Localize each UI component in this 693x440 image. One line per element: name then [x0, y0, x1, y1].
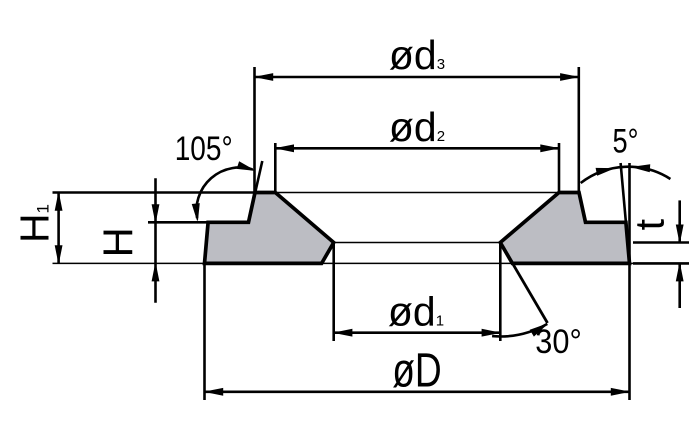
svg-text:øD: øD [392, 345, 442, 398]
H1 top extension line [53, 191, 256, 194]
105deg label [175, 130, 233, 168]
30deg slant line [500, 243, 547, 324]
od3 extension line left [253, 67, 256, 193]
oD dimension line [205, 389, 630, 396]
H ledge extension line [148, 221, 208, 224]
H1 dimension line [55, 193, 62, 264]
t lower extension line [633, 262, 689, 265]
od1 extension line left [332, 243, 335, 342]
od3 dimension line [255, 74, 579, 81]
bottom surface line [53, 262, 690, 264]
5deg label [613, 123, 639, 161]
oD extension line left [203, 263, 206, 400]
105deg arc [192, 162, 254, 221]
right cross-section [500, 193, 629, 264]
od3 extension line right [577, 67, 580, 193]
svg-text:ød2: ød2 [389, 104, 445, 150]
od1 dimension line [334, 329, 501, 336]
t label [627, 218, 673, 230]
top surface line [275, 192, 559, 194]
svg-text:5°: 5° [613, 123, 639, 161]
svg-text:30°: 30° [535, 323, 582, 361]
inner bore line [334, 242, 501, 244]
od2 extension line right [558, 143, 561, 193]
svg-text:105°: 105° [175, 130, 233, 168]
od2 extension line left [274, 143, 277, 193]
svg-text:t: t [627, 218, 673, 230]
oD label [392, 345, 442, 398]
t dimension line lower [676, 263, 683, 308]
od2 dimension line [275, 145, 559, 152]
svg-text:ød3: ød3 [389, 32, 445, 78]
H dimension line [152, 178, 159, 302]
H1 label [12, 204, 58, 243]
od1 extension line right [499, 243, 502, 342]
105deg slant extension line [255, 161, 262, 193]
30deg label [535, 323, 582, 361]
od2 label [389, 104, 445, 150]
H label [95, 227, 142, 257]
svg-text:H1: H1 [12, 204, 58, 243]
svg-text:ød1: ød1 [388, 289, 444, 335]
od3 label [389, 32, 445, 78]
5deg arc [581, 165, 671, 183]
svg-text:H: H [95, 227, 142, 257]
5deg slant line [621, 163, 626, 222]
oD extension line right / 5deg reference vertical [628, 163, 631, 400]
t upper extension line [633, 241, 689, 244]
t dimension line upper [676, 200, 683, 242]
left cross-section [205, 193, 334, 264]
od1 label [388, 289, 444, 335]
30deg arc [492, 324, 547, 337]
